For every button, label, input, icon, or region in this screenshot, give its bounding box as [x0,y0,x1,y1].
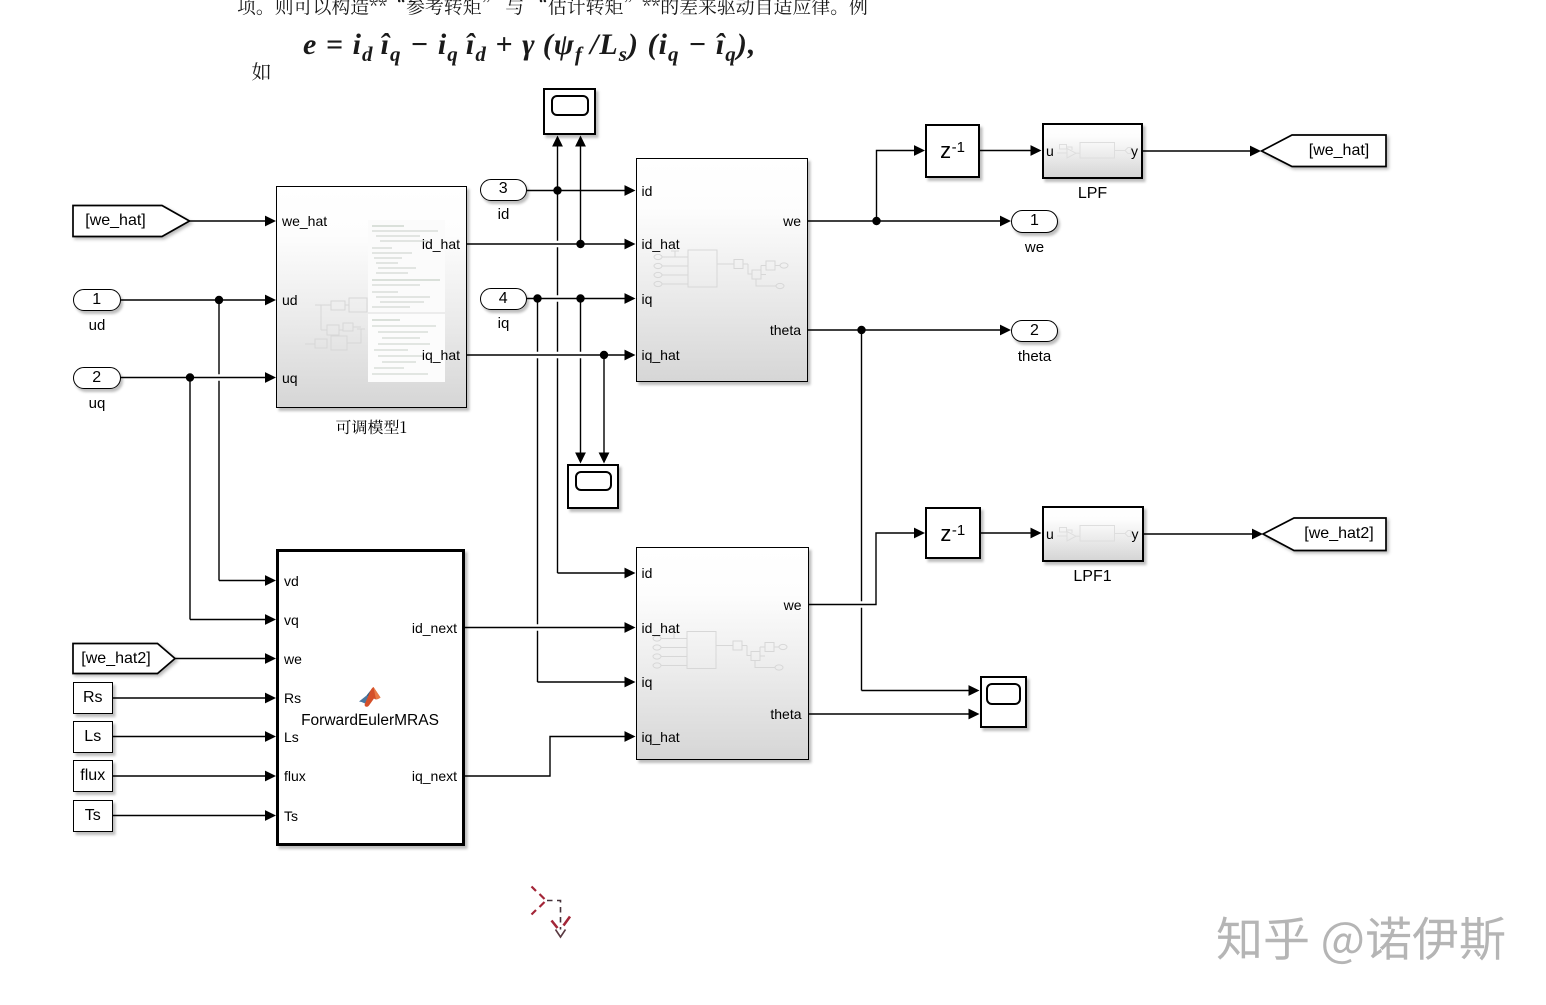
inport 3 id [480,179,528,201]
subsystem block LPF1 [1042,506,1144,563]
wire theta: upper observer theta output [808,329,862,331]
subsystem block upper MRAS observer [636,158,809,382]
outport 2 theta [1011,320,1058,342]
wire id branch down to lower MRAS observer id input [557,191,559,574]
port label iq_next of ForwardEulerMRAS [412,768,457,784]
wire Ts constant to MRAS Ts input [113,815,266,817]
wire iq_hat: 可调模型1 iq_hat to upper observer iq_hat input [467,354,625,356]
chinese character 如 [252,62,270,80]
port label iq of upper observer [642,291,653,307]
node we junction [872,217,880,225]
wire iq: inport 4 to upper observer iq input [527,298,625,300]
port label Ls of ForwardEulerMRAS [284,729,299,745]
faint interior preview of 可调模型1 subsystem [305,298,367,350]
scope block scope3 (theta comparison) [980,676,1028,728]
port label ud of 可调模型1 [282,292,298,308]
constant block Rs [73,682,113,714]
wire ud branch down to MRAS vd input [218,300,220,581]
wire id: inport 3 to upper MRAS observer id input [527,190,625,192]
port label Ts of ForwardEulerMRAS [284,808,298,824]
port label iq_hat of lower observer [642,729,680,745]
port label iq_hat of 可调模型1 [422,347,460,363]
unit delay block z-1 (top) [925,124,980,178]
block name LPF1 [1042,569,1143,585]
port label u of LPF1 [1046,526,1054,542]
port label vq of ForwardEulerMRAS [284,612,299,628]
wire flux constant to MRAS flux input [113,775,266,777]
wire id_hat branch up to scope1 input 2 [580,147,582,245]
wire theta lower: lower observer theta to scope3 input 2 [809,713,970,715]
block name ForwardEulerMRAS [297,713,443,729]
outport 1 we [1011,210,1058,233]
subsystem block LPF [1042,123,1144,180]
port label id_hat of lower observer [642,620,680,636]
wire we to outport 1 [877,220,1001,222]
faint interior preview of upper MRAS observer subsystem [654,250,788,289]
from tag [we_hat] (top left) [73,206,190,237]
red dashed unconnected-line annotation arrow [532,887,571,938]
port label flux of ForwardEulerMRAS [284,768,306,784]
scope block scope1 (id vs id_hat) [543,88,596,135]
unit delay block z-1 #2 (lower) [925,507,981,560]
wire we: upper observer we output [808,220,877,222]
inport 4 iq [480,288,528,310]
port label uq of 可调模型1 [282,370,298,386]
wire uq branch down to MRAS vq input [189,378,191,620]
chinese paragraph text line (clipped at top) [238,0,867,15]
wire LPF1 to goto tag [we_hat2] [1144,533,1253,535]
port label Rs of ForwardEulerMRAS [284,690,301,706]
port label id of upper observer [642,183,653,199]
MATLAB function block ForwardEulerMRAS [276,549,465,846]
node ud branch junction [215,296,223,304]
port label id of lower observer [642,565,653,581]
label id of inport 3 id [464,207,544,223]
text of from tag [we_hat] [74,213,158,229]
wire we lower: lower observer we output to unit delay z-1 #2 [809,533,915,605]
port label iq_hat of upper observer [642,347,680,363]
port label y of LPF1 [1132,526,1139,542]
faint interior preview of LPF1 subsystem [1057,526,1131,542]
port label theta of lower observer [770,706,801,722]
constant block flux [73,760,113,792]
port label id_hat of upper observer [642,236,680,252]
wire we_hat2 tag to MRAS we input [175,658,266,660]
label iq of inport 4 iq [464,316,544,332]
port label we of ForwardEulerMRAS [284,651,302,667]
port label vd of ForwardEulerMRAS [284,573,299,589]
wire we branch up to unit delay z-1 [877,151,915,222]
label uq of inport 2 uq [57,396,137,412]
wire id_next: MRAS id_next to lower observer id_hat input [465,627,625,629]
port label theta of upper observer [770,322,801,338]
wire ud: inport 1 to 可调模型1 ud input [121,299,266,301]
faint interior preview of lower MRAS observer subsystem [653,632,787,671]
wire iq branch down to lower observer iq input [537,299,539,683]
wire theta branch down to scope3 input 1 [861,330,863,691]
port label we_hat of 可调模型1 [282,213,327,229]
inport 2 uq [73,367,121,390]
goto tag [we_hat] (top right) [1262,135,1387,167]
text of goto tag [we_hat2] [1295,526,1383,542]
port label id_next of ForwardEulerMRAS [412,620,457,636]
node id junction [553,186,561,194]
wire z-1 to LPF [980,150,1031,152]
block name label 可调模型1 [336,420,406,435]
wire LPF to goto tag [we_hat] [1143,150,1251,152]
block name LPF [1042,186,1143,202]
label we of outport 1 we [995,240,1075,256]
watermark 知乎 @诺伊斯 [1218,917,1505,965]
port label id_hat of 可调模型1 [422,236,460,252]
wire id branch up to scope1 input 1 [557,147,559,191]
port label we of upper observer [783,213,801,229]
wire iq_hat branch down to scope2 input 2 [603,355,605,453]
constant block Ls [73,721,113,753]
wire we_hat tag to 可调模型1 we_hat input [190,220,266,222]
from tag [we_hat2] (left, to MRAS we) [73,644,175,674]
wire theta to outport 2 [862,329,1001,331]
node iq_hat junction [600,351,608,359]
node theta junction [857,326,865,334]
wire uq: inport 2 to 可调模型1 uq input [121,377,266,379]
port label iq of lower observer [642,674,653,690]
port label u of LPF [1046,143,1054,159]
wire z-1 #2 to LPF1 [981,532,1032,534]
wire iq branch down to scope2 input 1 [580,299,582,453]
label ud of inport 1 ud [57,318,137,334]
inport 1 ud [73,289,121,312]
wire Rs constant to MRAS Rs input [113,697,266,699]
math formula text [303,28,756,67]
goto tag [we_hat2] (right) [1263,518,1386,551]
label theta of outport 2 theta [995,349,1075,365]
port label we of lower observer [784,597,802,613]
wire iq_next: MRAS iq_next to lower observer iq_hat input [465,737,625,777]
constant block Ts [73,800,113,832]
node iq junction 2 [576,294,584,302]
text of goto tag [we_hat] [1296,143,1382,159]
port label y of LPF [1131,143,1138,159]
wire id_hat: 可调模型1 id_hat to upper observer id_hat input [467,243,625,245]
scope block scope2 (iq vs iq_hat) [567,464,619,510]
node id_hat junction [576,240,584,248]
node uq branch junction [186,373,194,381]
wire Ls constant to MRAS Ls input [113,736,266,738]
subsystem block lower MRAS observer [636,547,809,760]
MATLAB logo icon [357,685,384,712]
faint interior preview of LPF subsystem [1057,143,1131,159]
node iq junction 1 [533,294,541,302]
subsystem block 可调模型1 [276,186,467,409]
text of from tag [we_hat2] [74,651,158,667]
